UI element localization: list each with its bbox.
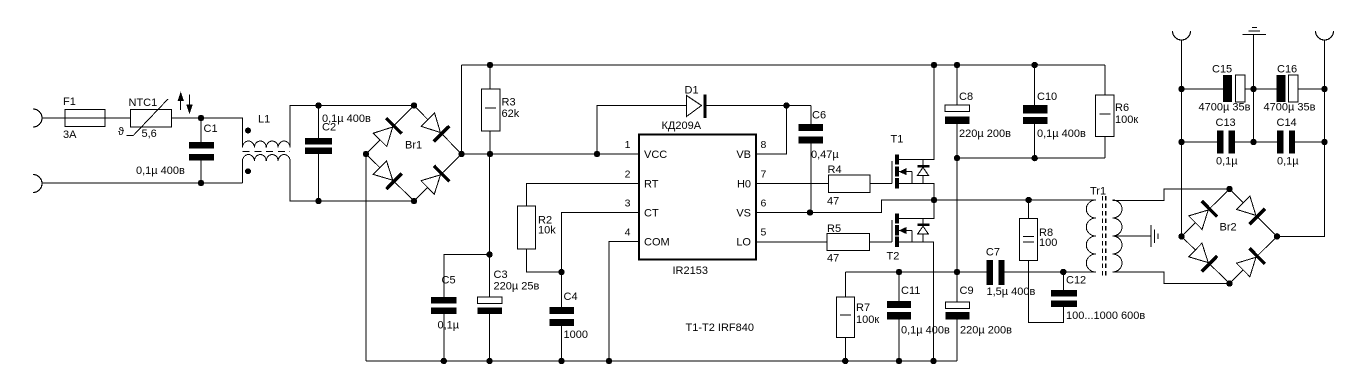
svg-text:3A: 3A	[63, 129, 77, 141]
svg-text:CT: CT	[644, 208, 659, 220]
wire VB	[756, 106, 786, 155]
node Br1 left	[363, 151, 369, 157]
svg-text:0,1µ: 0,1µ	[1277, 156, 1299, 168]
node bus C10	[1032, 62, 1038, 68]
svg-text:F1: F1	[63, 96, 76, 108]
node C2 top	[315, 102, 321, 108]
svg-text:0,1µ: 0,1µ	[1216, 156, 1238, 168]
svg-text:100к: 100к	[856, 314, 879, 326]
wire center tap	[1113, 235, 1152, 237]
svg-text:5,6: 5,6	[142, 128, 157, 140]
svg-text:D1: D1	[685, 85, 699, 97]
capacitor C4	[550, 307, 575, 314]
node bus C8	[954, 62, 960, 68]
bridge Br1 frame	[366, 106, 462, 202]
wire AC top rail	[319, 105, 415, 107]
svg-text:R5: R5	[827, 223, 841, 235]
wire snubber line	[845, 271, 986, 273]
resistor R5	[827, 234, 869, 251]
choke L1 lower winding	[243, 155, 291, 161]
node chain mid-top	[954, 155, 960, 161]
svg-text:5: 5	[761, 227, 767, 239]
wire output right rail	[1277, 40, 1325, 236]
svg-text:4: 4	[625, 227, 631, 239]
svg-text:3: 3	[625, 198, 631, 210]
diode D1	[687, 96, 702, 117]
capacitor C9 polarized	[946, 302, 970, 309]
capacitor C10	[1034, 65, 1036, 105]
svg-text:L1: L1	[258, 114, 270, 126]
transformer Tr1 secondary	[1113, 200, 1123, 272]
wire top +310V bus	[462, 64, 1105, 66]
node bus C11	[896, 358, 902, 364]
transistor T2 drain wire	[899, 200, 935, 218]
node VS C6	[807, 209, 813, 215]
wire COM down	[609, 242, 639, 362]
node mid rail C10	[1032, 155, 1038, 161]
svg-text:7: 7	[761, 169, 767, 181]
wire bottom rail	[42, 182, 243, 184]
node rail2 mid	[1250, 139, 1256, 145]
transistor T2 gate	[891, 220, 893, 242]
wire D1 cathode	[706, 105, 786, 107]
node R2-CT	[558, 269, 564, 275]
bridge Br2 frame	[1182, 189, 1278, 284]
svg-text:47: 47	[827, 253, 839, 265]
svg-text:C13: C13	[1216, 117, 1236, 129]
wire cap rail 1 mid	[1245, 88, 1277, 90]
svg-text:1,5µ 400в: 1,5µ 400в	[987, 286, 1036, 298]
svg-text:100...1000 600в: 100...1000 600в	[1066, 310, 1145, 322]
svg-text:100к: 100к	[1115, 114, 1138, 126]
svg-text:62k: 62k	[502, 108, 520, 120]
node bus T2	[930, 358, 936, 364]
diode Br2 left-bottom	[1189, 243, 1209, 262]
wire LO to R5	[756, 241, 827, 243]
node Br2 top	[1226, 186, 1232, 192]
capacitor C5	[431, 297, 457, 303]
svg-text:220µ 200в: 220µ 200в	[960, 325, 1012, 337]
node Br2 right	[1274, 233, 1280, 239]
phase dot upper	[245, 128, 251, 134]
wire Br1 plus up to bus	[461, 65, 463, 154]
svg-text:Br2: Br2	[1220, 222, 1237, 234]
svg-text:T2: T2	[887, 251, 900, 263]
svg-text:C12: C12	[1066, 275, 1086, 287]
wire earth between rails	[1253, 89, 1255, 142]
capacitor C12	[1062, 272, 1064, 290]
svg-text:C14: C14	[1277, 117, 1297, 129]
transistor T2 channel	[895, 213, 899, 223]
wire to C6	[786, 105, 810, 107]
transistor T2 source wire	[899, 242, 934, 361]
svg-text:T1: T1	[891, 134, 904, 146]
capacitor C13	[1217, 131, 1224, 154]
node C12 top	[1060, 269, 1066, 275]
svg-text:1000: 1000	[564, 329, 588, 341]
svg-text:C11: C11	[901, 285, 920, 297]
wire L1 up-right	[290, 106, 319, 148]
resistor R4	[829, 175, 871, 193]
wire cap rail 1 left	[1182, 88, 1223, 90]
wire D1 anode	[597, 106, 687, 155]
diode Br1 left-top	[373, 127, 392, 147]
wire cap rail 2 right	[1295, 141, 1324, 143]
svg-text:COM: COM	[644, 237, 670, 249]
capacitor C7	[987, 260, 993, 285]
wire H0 to R4	[756, 183, 829, 185]
wire C8 bottom chain	[956, 124, 958, 302]
svg-text:C15: C15	[1212, 64, 1232, 76]
node rail1 mid	[1250, 86, 1256, 92]
node Br1 right	[458, 151, 464, 157]
wire output left rail	[1181, 40, 1183, 236]
wire C5 branch	[444, 255, 490, 298]
capacitor C14	[1277, 131, 1283, 154]
wire R5 to T2 gate	[869, 241, 892, 243]
wire to L1 bottom	[242, 161, 244, 183]
svg-text:КД209А: КД209А	[662, 120, 702, 132]
svg-text:R7: R7	[856, 302, 870, 314]
svg-text:4700µ 35в: 4700µ 35в	[1199, 102, 1251, 114]
svg-text:H0: H0	[737, 179, 751, 191]
surge arrow up	[180, 101, 182, 110]
svg-text:R6: R6	[1115, 102, 1129, 114]
capacitor C1	[200, 118, 202, 142]
input terminal top (mains)	[33, 109, 42, 127]
node C3 branch	[486, 251, 492, 257]
capacitor C16 polarized	[1276, 75, 1285, 102]
svg-text:0,1µ 400в: 0,1µ 400в	[1037, 128, 1086, 140]
transistor T1 channel	[895, 155, 899, 165]
svg-text:C1: C1	[204, 123, 218, 135]
node C2 bottom	[315, 198, 321, 204]
svg-text:100: 100	[1039, 237, 1057, 249]
transistor T1 gate	[891, 161, 893, 184]
capacitor C3 polarized	[478, 297, 503, 303]
output terminal right	[1316, 31, 1334, 40]
svg-text:VS: VS	[736, 208, 751, 220]
wire Br1 minus down	[365, 154, 367, 361]
resistor R3	[489, 65, 491, 89]
choke L1 upper winding	[243, 141, 291, 147]
svg-text:4700µ 35в: 4700µ 35в	[1264, 102, 1316, 114]
svg-text:0,1µ 400в: 0,1µ 400в	[136, 165, 185, 177]
node C1 bottom	[198, 180, 204, 186]
svg-text:0,47µ: 0,47µ	[811, 149, 839, 161]
diode Br2 top-right	[1237, 196, 1256, 216]
wire RT to R2	[527, 184, 640, 207]
svg-text:VB: VB	[736, 149, 751, 161]
svg-text:C10: C10	[1037, 91, 1057, 103]
wire C7 to primary	[1005, 271, 1096, 273]
node Br1 top	[411, 102, 417, 108]
capacitor C11	[898, 272, 900, 301]
svg-text:Tr1: Tr1	[1090, 186, 1106, 198]
transistor T1 body diode	[922, 160, 924, 184]
svg-text:C16: C16	[1277, 64, 1297, 76]
node D1-VB-C6	[783, 102, 789, 108]
node rail1 right	[1321, 86, 1327, 92]
wire secondary bottom	[1113, 272, 1230, 284]
svg-text:10k: 10k	[538, 225, 556, 237]
svg-text:C5: C5	[442, 275, 456, 287]
thermistor NTC1	[131, 110, 172, 128]
resistor R2	[517, 206, 535, 249]
wire node to L1 top	[201, 118, 243, 148]
node R8 top	[1026, 197, 1032, 203]
wire VCC line	[462, 153, 640, 155]
svg-text:6: 6	[761, 198, 767, 210]
svg-text:LO: LO	[736, 237, 751, 249]
svg-text:47: 47	[827, 196, 839, 208]
svg-text:8: 8	[761, 139, 767, 151]
wire bottom bus	[366, 360, 957, 362]
node bus T1 drain	[931, 62, 937, 68]
output terminal left	[1173, 31, 1191, 40]
svg-text:C8: C8	[959, 91, 973, 103]
fuse F1	[65, 110, 105, 127]
wire R4 to T1 gate	[870, 183, 892, 185]
surge arrow down	[189, 94, 191, 105]
wire L1 down-right	[290, 161, 319, 201]
svg-text:C6: C6	[812, 110, 826, 122]
phase dot lower	[245, 168, 251, 174]
svg-text:1: 1	[625, 139, 631, 151]
wire cap rail 1 right	[1298, 88, 1325, 90]
node bus R7	[842, 358, 848, 364]
node bus C4	[558, 358, 564, 364]
wire NTC1 to node C1	[172, 117, 202, 119]
svg-text:IR2153: IR2153	[673, 265, 708, 277]
op-amp U1 IR2153 body	[639, 135, 756, 260]
svg-text:220µ 200в: 220µ 200в	[959, 128, 1011, 140]
diode Br1 bottom-right	[421, 175, 441, 194]
node bus COM	[606, 358, 612, 364]
diode Br2 left-top	[1189, 210, 1209, 229]
transistor T1 source wire	[899, 183, 935, 200]
node chain mid-bottom	[954, 269, 960, 275]
node rail2 left	[1178, 139, 1184, 145]
svg-text:C4: C4	[564, 291, 578, 303]
diode Br1 top-right	[421, 113, 440, 133]
svg-text:R4: R4	[828, 164, 842, 176]
diode Br2 bottom-right	[1237, 257, 1256, 276]
svg-text:0,1µ: 0,1µ	[438, 320, 460, 332]
node half-bridge midpoint	[931, 197, 937, 203]
svg-text:C2: C2	[322, 122, 336, 134]
svg-text:2: 2	[625, 169, 631, 181]
earth ground (center tap)	[1150, 225, 1152, 247]
node bus C3	[486, 358, 492, 364]
transistor T1 drain wire	[899, 65, 935, 160]
resistor R6	[1104, 65, 1106, 95]
diode Br1 left-bottom	[373, 161, 393, 180]
svg-text:VCC: VCC	[644, 149, 667, 161]
svg-text:ϑ: ϑ	[118, 126, 124, 138]
svg-text:Br1: Br1	[405, 140, 422, 152]
wire cap rail 2 left	[1182, 141, 1218, 143]
wire cap rail 2 mid	[1235, 141, 1277, 143]
svg-text:0,1µ 400в: 0,1µ 400в	[901, 325, 950, 337]
transformer Tr1 core	[1102, 196, 1104, 277]
wire mid rail	[957, 157, 1105, 159]
transistor T1 arrow	[899, 171, 912, 173]
node VCC R3	[487, 151, 493, 157]
node rail2 right	[1321, 139, 1327, 145]
wire F1 to NTC1	[105, 117, 131, 119]
node C11 top	[896, 269, 902, 275]
wire CT down	[562, 213, 640, 308]
svg-text:C9: C9	[960, 285, 974, 297]
earth ground (output)	[1253, 35, 1255, 89]
wire R3 node down to C3	[489, 154, 491, 297]
capacitor C6	[810, 106, 812, 125]
capacitor C8 polarized	[945, 105, 970, 111]
wire AC bottom rail	[319, 200, 415, 202]
svg-text:NTC1: NTC1	[129, 97, 158, 109]
node C1 top	[198, 115, 204, 121]
svg-text:R3: R3	[502, 97, 516, 109]
choke L1 core	[243, 151, 291, 153]
capacitor C15 polarized	[1223, 75, 1232, 102]
transistor T2 arrow	[899, 230, 912, 232]
node Br2 left	[1178, 233, 1184, 239]
transformer Tr1 primary	[1086, 200, 1096, 272]
node rail1 left	[1178, 86, 1184, 92]
node VCC D1	[594, 151, 600, 157]
svg-text:RT: RT	[644, 179, 659, 191]
transistor T2 body diode	[922, 218, 924, 242]
node Br2 bottom	[1226, 280, 1232, 286]
node Br1 bottom	[411, 198, 417, 204]
input terminal bottom (mains)	[33, 175, 42, 193]
node bus C5	[441, 358, 447, 364]
svg-text:C3: C3	[494, 269, 508, 281]
resistor R8	[1028, 200, 1030, 219]
wire VS line	[756, 200, 1096, 213]
wire R2 bottom	[527, 249, 562, 272]
capacitor C2	[318, 106, 320, 139]
resistor R7	[844, 272, 846, 297]
wire terminal to F1	[42, 117, 66, 119]
wire C8 top	[956, 65, 958, 105]
svg-text:T1-T2 IRF840: T1-T2 IRF840	[686, 322, 754, 334]
svg-text:C7: C7	[986, 247, 1000, 259]
node bus R3	[487, 62, 493, 68]
svg-text:220µ 25в: 220µ 25в	[494, 281, 540, 293]
wire secondary top	[1113, 189, 1230, 201]
